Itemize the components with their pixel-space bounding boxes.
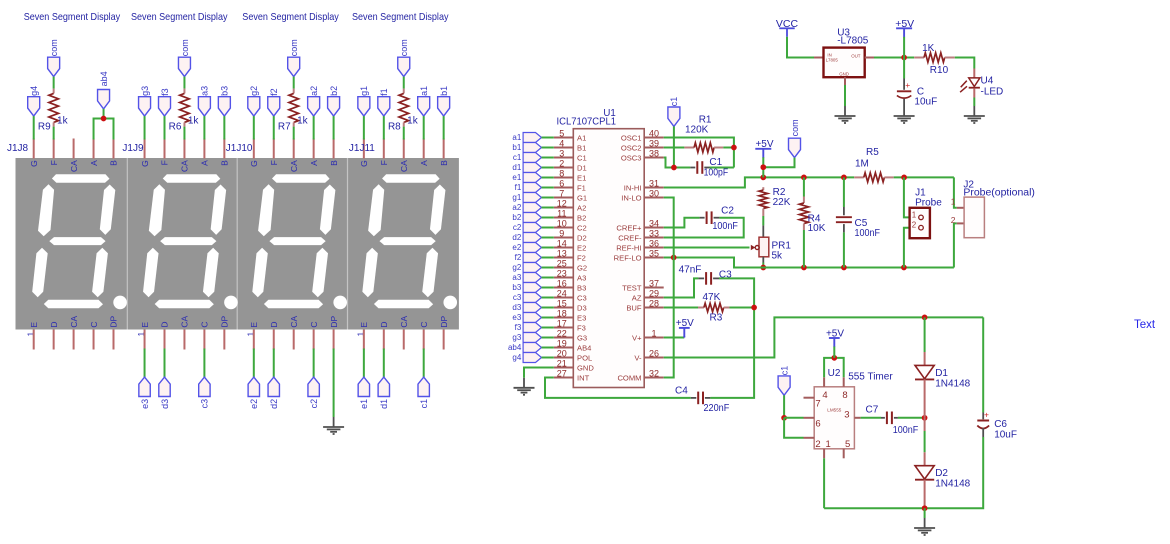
global label d2: [268, 377, 279, 409]
wire com to R7: [293, 77, 295, 89]
resistor R3 47K: [698, 292, 730, 323]
svg-text:14: 14: [557, 239, 567, 249]
U1 pin 18 E3: [554, 309, 586, 323]
svg-text:13: 13: [557, 249, 567, 259]
U1 pin 10 C2: [554, 219, 587, 233]
global label a3 at U1: [512, 273, 541, 283]
resistor R8 1k: [388, 89, 419, 133]
svg-text:INT: INT: [577, 373, 590, 382]
svg-text:E: E: [140, 322, 150, 328]
wire R1 to OSC1 node: [723, 147, 734, 149]
svg-text:U2: U2: [828, 368, 841, 379]
ground below DS3: [323, 417, 344, 434]
svg-text:5: 5: [559, 129, 564, 139]
wire rail to J2 pin1: [954, 177, 957, 207]
svg-text:8: 8: [842, 390, 847, 401]
svg-text:220nF: 220nF: [704, 403, 730, 414]
svg-text:1K: 1K: [922, 43, 935, 54]
svg-text:CA: CA: [69, 315, 79, 327]
PR1 wiper arrow: [751, 245, 759, 250]
svg-text:17: 17: [557, 319, 567, 329]
global label com above R8: [398, 39, 410, 76]
svg-text:g1: g1: [359, 86, 369, 96]
wire display to d2 flag: [273, 349, 275, 378]
svg-text:C: C: [309, 321, 319, 327]
svg-text:25: 25: [557, 259, 567, 269]
svg-text:GND: GND: [839, 72, 849, 77]
wire b1 flag to pin: [542, 147, 554, 149]
global label a2 at U1: [512, 203, 541, 213]
svg-text:g3: g3: [512, 333, 521, 342]
wire C6 to bottom rail: [824, 437, 983, 508]
svg-text:2: 2: [815, 439, 820, 450]
junction com/+5V: [760, 164, 766, 170]
svg-text:100pF: 100pF: [704, 167, 729, 178]
svg-text:e1: e1: [359, 399, 369, 409]
wire bottom rail to J2 pin2: [954, 223, 957, 267]
display DS3 top pins: [254, 139, 334, 159]
wire LED to ground: [973, 98, 975, 107]
svg-text:B: B: [220, 160, 230, 166]
wire d3 flag to pin: [542, 307, 554, 309]
svg-text:30: 30: [649, 189, 659, 199]
U1 pin 32 COMM: [617, 369, 663, 383]
svg-text:OSC1: OSC1: [621, 133, 642, 142]
junction rail J1: [901, 175, 907, 181]
U1 pin 9 D2: [554, 229, 587, 243]
capacitor C 10uF: [897, 58, 937, 108]
junction REF-LO IN-LO: [671, 255, 677, 261]
svg-text:29: 29: [649, 289, 659, 299]
svg-text:c1: c1: [779, 366, 789, 376]
wire com to +5V stem: [763, 158, 794, 168]
U2 pin 1 stub: [823, 449, 825, 459]
svg-text:3: 3: [559, 149, 564, 159]
svg-text:1: 1: [912, 210, 917, 219]
wire d2 flag to pin: [542, 237, 554, 239]
wire display to c2 flag: [313, 349, 315, 378]
global label g4: [28, 86, 40, 116]
svg-text:a2: a2: [512, 203, 521, 212]
svg-text:16: 16: [557, 279, 567, 289]
svg-text:C6: C6: [994, 419, 1007, 430]
global label e3: [139, 377, 150, 409]
global label b2 at U1: [512, 213, 541, 223]
svg-text:d2: d2: [512, 233, 521, 242]
svg-text:37: 37: [649, 279, 659, 289]
svg-text:B3: B3: [577, 283, 586, 292]
junction rail C5: [841, 175, 847, 181]
ground C: [894, 106, 915, 123]
wire C1 to OSC1 loop: [710, 167, 734, 169]
svg-text:A2: A2: [577, 203, 586, 212]
U1 pin 39 OSC2: [621, 139, 664, 153]
U1 pin 27 INT: [554, 369, 590, 383]
svg-text:1k: 1k: [188, 115, 200, 126]
svg-text:CA: CA: [289, 315, 299, 327]
wire g2 to display: [253, 116, 255, 139]
wire a1 flag to pin: [542, 137, 554, 139]
svg-text:POL: POL: [577, 353, 592, 362]
diode D2 1N4148: [915, 452, 971, 508]
svg-text:d2: d2: [269, 399, 279, 409]
wire C7 to diode node: [898, 417, 925, 419]
wire g3 flag to pin: [542, 337, 554, 339]
svg-text:C: C: [89, 321, 99, 327]
capacitor C1 100pF: [690, 157, 728, 179]
wire node to D2: [924, 418, 926, 431]
svg-text:J1J10: J1J10: [226, 143, 253, 154]
resistor R4 10K: [799, 177, 825, 234]
wire REF-LO to bottom rail: [664, 258, 954, 268]
power +5V at 555: [826, 328, 844, 347]
wire bottom rail to J1 pin2: [904, 228, 910, 268]
svg-text:f3: f3: [515, 323, 522, 332]
resistor R7 1k: [278, 89, 309, 133]
svg-text:d1: d1: [379, 399, 389, 409]
wire ab4 flag to pin: [542, 347, 554, 349]
svg-text:f1: f1: [515, 183, 522, 192]
power +5V at V+: [676, 318, 694, 338]
svg-text:10: 10: [557, 219, 567, 229]
svg-text:5: 5: [845, 439, 850, 450]
svg-text:U4: U4: [981, 76, 994, 87]
svg-text:a1: a1: [419, 86, 429, 96]
svg-text:2: 2: [951, 215, 956, 225]
svg-text:+5V: +5V: [895, 18, 914, 30]
svg-text:BUF: BUF: [626, 303, 642, 312]
power +5V main: [895, 18, 914, 38]
wire C5 to bottom rail: [843, 232, 845, 267]
resistor R2 22K: [759, 187, 791, 216]
U1 pin 7 G1: [554, 189, 587, 203]
junction bottom rail C5: [841, 265, 847, 271]
U1 pin 17 F3: [554, 319, 586, 333]
U1 pin 22 G3: [554, 329, 587, 343]
svg-text:11: 11: [557, 209, 566, 219]
global label c1 at U1: [513, 153, 542, 163]
U1 pin 14 E2: [554, 239, 586, 253]
global label b1: [438, 86, 450, 116]
svg-text:d3: d3: [512, 303, 521, 312]
wire C3 to node: [719, 278, 754, 307]
global label f3: [159, 88, 171, 116]
wire IN-LO to COMM: [664, 198, 674, 378]
global label ab4: [98, 71, 110, 109]
svg-text:f2: f2: [515, 253, 522, 262]
global label com above R9: [48, 39, 60, 76]
svg-text:-LED: -LED: [981, 86, 1004, 97]
svg-text:22: 22: [557, 329, 567, 339]
global label c1 at OSC: [668, 97, 680, 127]
svg-text:C7: C7: [866, 405, 879, 416]
svg-text:f2: f2: [269, 88, 279, 96]
U1 pin 25 G2: [554, 259, 587, 273]
svg-text:G1: G1: [577, 193, 587, 202]
resistor R9 1k: [38, 89, 69, 133]
svg-text:g3: g3: [140, 86, 150, 96]
svg-text:J1J11: J1J11: [349, 143, 375, 154]
global label d2 at U1: [512, 233, 541, 243]
wire c3 flag to pin: [542, 297, 554, 299]
svg-text:32: 32: [649, 369, 659, 379]
wire junction to DS1 pin A: [94, 119, 104, 140]
wire com to R9: [53, 77, 55, 89]
svg-text:d1: d1: [512, 163, 521, 172]
U2 pin 4 stub: [823, 377, 825, 387]
global label c1 at 555: [778, 366, 790, 396]
U1 pin 12 A2: [554, 199, 586, 213]
svg-text:1: 1: [651, 329, 656, 339]
svg-text:g1: g1: [512, 193, 521, 202]
wire R4 to bottom rail: [803, 230, 805, 268]
svg-text:b2: b2: [512, 213, 521, 222]
U1 pin 5 A1: [554, 129, 586, 143]
svg-text:g2: g2: [249, 86, 259, 96]
svg-text:A: A: [200, 160, 210, 166]
svg-text:2: 2: [912, 221, 917, 230]
display DS4 bottom pins: [364, 330, 444, 350]
wire f3 to display: [164, 116, 166, 139]
junction bottom rail R4: [801, 265, 807, 271]
junction bottom rail J1: [901, 265, 907, 271]
svg-text:D: D: [379, 321, 389, 327]
wire g1 to display: [363, 116, 365, 139]
svg-text:f3: f3: [160, 88, 170, 96]
svg-text:8: 8: [559, 169, 564, 179]
svg-text:c2: c2: [513, 223, 522, 232]
ground LED: [964, 106, 985, 123]
wire c2 flag to pin: [542, 227, 554, 229]
wire c1 flag to pin: [542, 157, 554, 159]
wire CREF+ to C2: [664, 218, 700, 228]
svg-text:B1: B1: [577, 143, 586, 152]
global label f2 at U1: [515, 253, 542, 263]
svg-text:c1: c1: [419, 399, 429, 409]
svg-text:7: 7: [815, 399, 820, 410]
svg-text:31: 31: [649, 179, 659, 189]
U1 pin 34 CREF+: [616, 219, 663, 233]
svg-text:B: B: [109, 160, 119, 166]
wire IN-HI to top rail: [664, 177, 855, 187]
svg-text:com: com: [399, 39, 409, 56]
svg-text:F3: F3: [577, 323, 586, 332]
U1 pin 11 B2: [554, 209, 586, 223]
wire d1 flag to pin: [542, 167, 554, 169]
svg-text:2: 2: [559, 159, 564, 169]
U2 pin 5 stub: [843, 449, 845, 459]
wire b2 flag to pin: [542, 217, 554, 219]
U1 pin 24 C3: [554, 289, 587, 303]
wire node to pin 6: [784, 417, 803, 419]
LED U4: [960, 69, 1003, 98]
svg-text:a2: a2: [309, 86, 319, 96]
wire display to e1 flag: [363, 349, 365, 378]
svg-text:21: 21: [557, 359, 567, 369]
wire a2 flag to pin: [542, 207, 554, 209]
global label d1 at U1: [512, 163, 541, 173]
global label f2: [268, 88, 280, 116]
svg-text:E3: E3: [577, 313, 586, 322]
svg-text:D1: D1: [935, 368, 948, 379]
junction AZ/BUF node: [751, 305, 757, 311]
svg-text:A: A: [419, 160, 429, 166]
svg-text:F: F: [269, 160, 279, 165]
wire U3 OUT to +5V node: [874, 57, 914, 59]
svg-text:E: E: [29, 322, 39, 328]
svg-text:-L7805: -L7805: [837, 36, 869, 47]
svg-text:Seven Segment Display: Seven Segment Display: [24, 12, 121, 23]
svg-text:39: 39: [649, 139, 659, 149]
wire f2 flag to pin: [542, 257, 554, 259]
svg-text:100nF: 100nF: [712, 221, 738, 232]
svg-text:G: G: [249, 160, 259, 167]
wire PR1 to bottom rail: [762, 257, 764, 263]
capacitor C2 100nF: [700, 206, 738, 232]
global label c3: [199, 377, 210, 408]
global label b3 at U1: [512, 283, 541, 293]
ground U3: [835, 106, 856, 123]
svg-text:23: 23: [557, 269, 567, 279]
svg-text:LM555: LM555: [827, 407, 841, 412]
svg-text:F: F: [379, 160, 389, 165]
svg-text:CREF-: CREF-: [618, 233, 642, 242]
junction diode rail D1: [922, 315, 928, 321]
global label d3: [159, 377, 170, 409]
wire g1 flag to pin: [542, 197, 554, 199]
junction PR1 bottom: [760, 265, 766, 271]
svg-text:10uF: 10uF: [914, 97, 937, 108]
svg-text:C: C: [419, 321, 429, 327]
svg-text:+: +: [905, 80, 910, 90]
global label a1 at U1: [512, 133, 541, 143]
voltage regulator U3 L7805: [814, 28, 874, 77]
svg-text:E: E: [249, 322, 259, 328]
U1 pin 6 F1: [554, 179, 586, 193]
wire f1 to display: [383, 116, 385, 139]
svg-text:AB4: AB4: [577, 343, 591, 352]
svg-text:R6: R6: [169, 121, 182, 132]
wire display to d1 flag: [383, 349, 385, 378]
svg-text:CA: CA: [180, 160, 190, 172]
wire junction to DS1 pin B: [104, 119, 114, 140]
global label f3 at U1: [515, 323, 542, 333]
svg-text:G: G: [359, 160, 369, 167]
svg-text:R7: R7: [278, 121, 291, 132]
svg-text:E1: E1: [577, 173, 586, 182]
display DS2 top pins: [145, 139, 225, 159]
svg-text:ab4: ab4: [99, 71, 109, 86]
power +5V at R2: [755, 139, 774, 158]
svg-text:e2: e2: [512, 243, 521, 252]
global label a1: [418, 86, 430, 116]
seven segment display DS4 body: [356, 160, 457, 337]
wire R8 to display pin: [403, 127, 405, 140]
timer U2 555 body: [814, 368, 893, 450]
junction pin6 node: [781, 415, 787, 421]
svg-text:DP: DP: [329, 315, 339, 327]
power VCC: [776, 18, 799, 37]
svg-text:10K: 10K: [808, 223, 826, 234]
svg-text:ab4: ab4: [508, 343, 522, 352]
svg-text:1N4148: 1N4148: [935, 479, 970, 490]
svg-text:V+: V+: [632, 333, 642, 342]
display DS1 top pins: [34, 139, 114, 159]
junction +5V node: [901, 55, 907, 61]
svg-text:R5: R5: [866, 147, 879, 158]
U1 pin 36 REF-HI: [616, 239, 664, 253]
junction 555 +5V: [831, 355, 837, 361]
svg-text:6: 6: [559, 179, 564, 189]
wire +5V to bracket: [833, 347, 835, 358]
wire R10 to LED: [955, 58, 975, 69]
svg-text:com: com: [289, 39, 299, 56]
ground U1: [514, 378, 535, 395]
wire c1 flag down: [673, 126, 675, 167]
svg-text:c3: c3: [513, 293, 522, 302]
svg-text:E: E: [359, 322, 369, 328]
wire display to e3 flag: [144, 349, 146, 378]
display DS4 top pins: [364, 139, 444, 159]
svg-text:A: A: [89, 160, 99, 166]
svg-text:REF-HI: REF-HI: [616, 243, 641, 252]
wire b2 to display: [333, 116, 335, 139]
svg-text:e3: e3: [140, 399, 150, 409]
svg-text:Seven Segment Display: Seven Segment Display: [242, 12, 339, 23]
U1 pin 13 F2: [554, 249, 586, 263]
svg-text:G: G: [29, 160, 39, 167]
junction bottom rail ground: [922, 505, 928, 511]
svg-text:AZ: AZ: [632, 293, 642, 302]
U1 pin 3 C1: [554, 149, 587, 163]
svg-text:7: 7: [559, 189, 564, 199]
svg-text:e1: e1: [512, 173, 521, 182]
junction ab4 node: [101, 116, 107, 122]
U1 pin 20 POL: [554, 349, 592, 363]
svg-text:J1J8: J1J8: [7, 143, 29, 154]
svg-text:38: 38: [649, 149, 659, 159]
U2 pin 7 stub: [804, 397, 815, 399]
svg-text:g4: g4: [512, 353, 521, 362]
svg-text:Probe: Probe: [915, 198, 942, 209]
wire a3 to display: [203, 116, 205, 139]
svg-text:DP: DP: [220, 315, 230, 327]
svg-text:D: D: [269, 321, 279, 327]
svg-text:b3: b3: [512, 283, 521, 292]
U1 pin 23 A3: [554, 269, 586, 283]
wire rail to J1 pin1: [904, 177, 910, 217]
svg-text:28: 28: [649, 299, 659, 309]
svg-text:R3: R3: [710, 313, 723, 324]
svg-text:OSC3: OSC3: [621, 153, 642, 162]
svg-text:DP: DP: [109, 315, 119, 327]
global label e2 at U1: [512, 243, 541, 253]
wire U1 GND to ground: [524, 368, 554, 378]
wire C2 to CREF-: [664, 218, 744, 238]
svg-text:1k: 1k: [407, 115, 419, 126]
resistor R5 1M: [854, 147, 894, 182]
global label g1 at U1: [512, 193, 541, 203]
display DS3 bottom pins: [254, 330, 334, 350]
wire com to R6: [183, 77, 185, 89]
junction rail R4: [801, 175, 807, 181]
svg-text:3: 3: [844, 409, 849, 420]
capacitor C7 100nF: [866, 405, 919, 437]
wire R6 to display pin: [183, 127, 185, 140]
U1 pin 30 IN-LO: [621, 189, 663, 203]
wire g3 to display: [144, 116, 146, 139]
connector J2 Probe(optional): [951, 179, 1035, 237]
